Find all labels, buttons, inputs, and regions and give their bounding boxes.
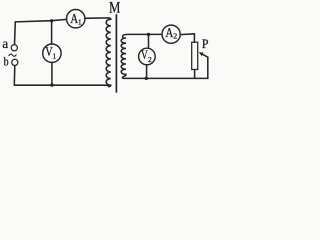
svg-text:1: 1 <box>78 17 82 26</box>
svg-text:P: P <box>202 37 209 51</box>
ammeter A2 <box>162 25 180 43</box>
AC source tilde <box>9 54 16 56</box>
rheostat P body <box>192 42 198 69</box>
svg-text:2: 2 <box>173 32 177 41</box>
wire V1 branch upper <box>51 21 53 44</box>
wire top-left horizontal <box>15 19 66 22</box>
wire bottom of left loop <box>14 84 108 86</box>
transformer secondary coil <box>121 34 162 78</box>
wire right side vertical <box>207 57 209 78</box>
svg-text:2: 2 <box>148 55 152 64</box>
voltmeter V2 <box>139 48 156 65</box>
svg-text:M: M <box>109 0 120 16</box>
junction dot bottom of V1 branch <box>50 83 53 86</box>
wire left side lower <box>13 66 16 85</box>
rheostat bottom lead <box>194 70 196 79</box>
wire left side upper <box>14 22 17 45</box>
wire bottom of right loop <box>123 77 208 79</box>
rheostat slider arm <box>202 54 208 57</box>
transformer primary coil <box>106 18 111 87</box>
transformer core <box>115 15 117 92</box>
wire A2 to rheostat top <box>180 34 194 42</box>
junction dot bottom of V2 branch <box>145 77 148 80</box>
ammeter A1 <box>67 10 85 28</box>
terminal b <box>12 59 18 65</box>
wire V1 branch lower <box>51 62 53 85</box>
svg-text:a: a <box>2 36 8 51</box>
wire A1 to transformer <box>85 17 108 19</box>
voltmeter V1 <box>43 44 61 62</box>
slider arrowhead <box>199 52 204 56</box>
svg-text:1: 1 <box>53 52 57 61</box>
junction dot top of V2 branch <box>147 33 150 36</box>
wire V2 branch upper <box>148 34 150 48</box>
terminal a <box>11 45 17 51</box>
wire V2 branch lower <box>146 65 148 79</box>
svg-text:b: b <box>4 55 9 69</box>
junction dot top of V1 branch <box>50 19 53 22</box>
